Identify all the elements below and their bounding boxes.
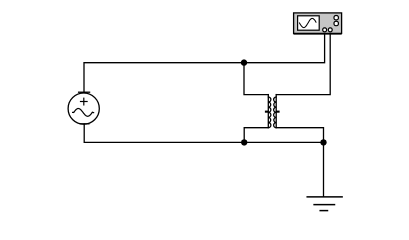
wire secondary top (transformer T1 secondary to scope right terminal)	[276, 33, 330, 94]
wire secondary bottom (transformer T1 secondary to ground node)	[276, 128, 323, 143]
AC source V1 circle	[68, 92, 99, 124]
oscilloscope U1 knob 1	[334, 16, 338, 20]
AC source V1 sine wave	[73, 109, 94, 117]
wire primary bottom (transformer T1 primary to bottom wire)	[244, 128, 268, 143]
transformer T1 secondary tap mark	[276, 111, 279, 113]
oscilloscope U1 body	[294, 13, 342, 34]
oscilloscope U1 terminal 2	[328, 28, 332, 32]
oscilloscope U1 screen trace	[300, 18, 317, 27]
oscilloscope U1 body bottom edge	[294, 33, 341, 35]
ground symbol	[307, 197, 342, 211]
node C (junction dot bottom right, ground node)	[320, 139, 326, 145]
AC source V1 plus sign	[81, 98, 88, 105]
wire ground drop	[323, 142, 325, 196]
transformer T1 primary tap mark	[265, 111, 268, 113]
transformer T1 primary winding	[268, 95, 271, 128]
node B (junction dot bottom left)	[241, 139, 247, 145]
wire primary top (node A down to transformer T1 primary)	[244, 63, 268, 95]
node A (junction dot top)	[241, 59, 247, 65]
oscilloscope U1 knob 2	[334, 21, 338, 25]
oscilloscope U1 terminal 1	[323, 28, 327, 32]
wire bottom horizontal (source bottom to ground node)	[84, 124, 323, 142]
oscilloscope U1 screen	[298, 16, 320, 30]
transformer T1 secondary winding	[274, 95, 277, 128]
wire top horizontal (source top to scope left terminal)	[84, 33, 325, 92]
